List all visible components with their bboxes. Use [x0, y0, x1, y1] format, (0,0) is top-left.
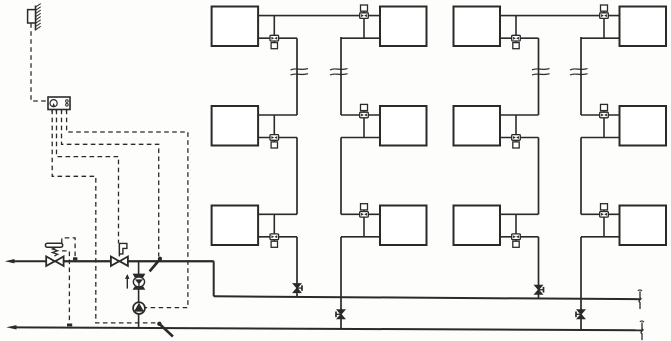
return temperature sensor B3: [157, 322, 161, 326]
radiator R5 (group 1, row 3, left): [212, 206, 259, 246]
impulse line 2: PC1 to return main tap: [62, 251, 69, 323]
upper pipe left group 2 row 3: [500, 213, 539, 215]
bypass right group 1 row 2: [363, 117, 365, 137]
upper pipe right group 2 row 3: [581, 213, 620, 215]
control line B: controller to valve actuator M1: [57, 110, 119, 244]
riser 1a segment row2-row3: [296, 138, 298, 215]
sensor cable (dashed) B1 to controller: [31, 23, 48, 101]
riser 2b segment row2-row3: [580, 138, 582, 215]
upper pipe right group 1 row 3: [341, 213, 380, 215]
riser 2a segment to upper main: [538, 237, 540, 299]
radiator R10 (group 2, row 2, right): [620, 106, 667, 146]
radiator R11 (group 2, row 3, left): [454, 206, 501, 246]
bypass right group 2 row 1: [603, 18, 605, 38]
thermostatic valve group 2 row 3 left: [512, 234, 521, 240]
controller U1 (weather compensator with clock): [48, 97, 70, 110]
bypass left group 2 row 2: [515, 115, 517, 135]
bypass right group 2 row 2: [603, 117, 605, 137]
lower pipe right group 2 row 3: [581, 236, 620, 238]
thermostatic valve group 1 row 1 right: [360, 13, 369, 19]
thermostatic valve group 2 row 2 left: [512, 135, 521, 141]
thermostatic valve group 1 row 2 left: [270, 135, 279, 141]
upper pipe right group 2 row 2: [581, 114, 620, 116]
radiator R7 (group 2, row 1, left): [454, 7, 501, 47]
thermostatic valve group 1 row 3 right: [360, 212, 369, 218]
lower pipe right group 1 row 3: [341, 236, 380, 238]
lower pipe right group 1 row 1: [341, 37, 380, 39]
thermostatic valve group 2 row 1 left: [512, 35, 521, 41]
flow direction arrow (upward): [126, 278, 128, 289]
riser 1a segment row1-row2: [296, 38, 298, 115]
control line D: controller to pump P1: [67, 110, 188, 308]
control line A: controller to return sensor B3: [52, 110, 155, 323]
lower pipe right group 2 row 1: [581, 37, 620, 39]
riser 2a segment row2-row3: [538, 138, 540, 215]
outdoor temperature sensor B1: [28, 10, 36, 23]
lower pipe left group 2 row 1: [500, 37, 539, 39]
radiator R8 (group 2, row 1, right): [620, 7, 667, 47]
thermostatic valve group 1 row 3 left: [270, 234, 279, 240]
bypass left group 2 row 3: [515, 214, 517, 234]
riser 1b segment row2-row3: [340, 138, 342, 215]
thermostatic valve group 1 row 1 left: [270, 35, 279, 41]
riser 1a segment to upper main: [296, 237, 298, 297]
radiator R4 (group 1, row 2, right): [380, 106, 427, 146]
PC1 spring and stem: [52, 247, 57, 256]
riser 1b shutoff valve: [337, 310, 345, 315]
riser 1a shutoff valve: [293, 284, 301, 289]
lower pipe left group 1 row 2: [258, 137, 297, 139]
riser 1b segment to return main: [340, 237, 342, 329]
riser 2a shutoff valve: [535, 285, 543, 290]
bypass left group 1 row 1: [273, 16, 275, 36]
bypass left group 1 row 3: [273, 214, 275, 234]
thermostatic valve group 2 row 3 right: [600, 212, 609, 218]
impulse line 1: PC1 to supply pressure tap: [62, 238, 75, 258]
riser 2a break mark: [532, 69, 550, 70]
riser 2b break mark: [570, 69, 588, 70]
riser 2b segment to return main: [580, 237, 582, 330]
return main pipe to network: [16, 327, 642, 330]
differential pressure regulator PC1 valve body: [46, 256, 55, 266]
lower pipe left group 1 row 1: [258, 37, 297, 39]
radiator R6 (group 1, row 3, right): [380, 206, 427, 246]
top connecting pipe group 2: [500, 15, 620, 17]
top connecting pipe group 1: [258, 15, 380, 17]
bypass right group 1 row 3: [363, 217, 365, 237]
V1 actuator stem and flag M1: [118, 243, 120, 256]
upper pipe left group 2 row 2: [500, 114, 539, 116]
circulation pump P1: [133, 302, 145, 314]
PC1 actuator capsule: [45, 243, 62, 247]
supply main pipe from network: [14, 260, 214, 262]
check valve K1 on mixing bridge: [133, 274, 146, 278]
upper distribution main: [214, 296, 640, 299]
thermostatic valve group 2 row 2 right: [600, 112, 609, 118]
radiator R12 (group 2, row 3, right): [620, 206, 667, 246]
riser 1a break mark: [291, 69, 309, 70]
lower pipe left group 2 row 2: [500, 137, 539, 139]
thermostatic valve group 1 row 2 right: [360, 112, 369, 118]
pipe segment between V1 and corner: [64, 260, 111, 262]
wall (hatched building wall): [35, 6, 37, 31]
upper pipe left group 1 row 3: [258, 213, 297, 215]
radiator R1 (group 1, row 1, left): [212, 7, 259, 47]
upper pipe right group 1 row 2: [341, 114, 380, 116]
bypass left group 1 row 2: [273, 115, 275, 135]
mixing bridge pipe (supply to return): [138, 261, 140, 328]
pressure tap on supply pipe: [73, 257, 77, 260]
bypass right group 1 row 1: [363, 18, 365, 38]
break mark at return main right end: [641, 323, 643, 341]
riser 2b shutoff valve: [577, 310, 585, 315]
supply temperature sensor B2: [158, 257, 162, 261]
radiator R9 (group 2, row 2, left): [454, 106, 501, 146]
lower pipe right group 2 row 2: [581, 137, 620, 139]
riser 1b break mark: [330, 69, 348, 70]
radiator R3 (group 1, row 2, left): [212, 106, 259, 146]
thermostatic valve group 2 row 1 right: [600, 13, 609, 19]
radiator R2 (group 1, row 1, right): [380, 7, 427, 47]
bypass left group 2 row 1: [515, 16, 517, 36]
lower pipe left group 1 row 3: [258, 236, 297, 238]
break mark at upper main right end: [639, 291, 641, 309]
lower pipe right group 1 row 2: [341, 137, 380, 139]
bypass right group 2 row 3: [603, 217, 605, 237]
upper pipe left group 1 row 2: [258, 114, 297, 116]
control line C: controller to supply sensor B2: [62, 110, 159, 257]
tap mark on return main: [67, 324, 72, 327]
riser 2b segment row1-row2: [580, 37, 582, 115]
lower pipe left group 2 row 3: [500, 236, 539, 238]
motorized control valve V1 body: [111, 257, 119, 266]
riser 2a segment row1-row2: [538, 38, 540, 115]
riser 1b segment row1-row2: [340, 37, 342, 115]
